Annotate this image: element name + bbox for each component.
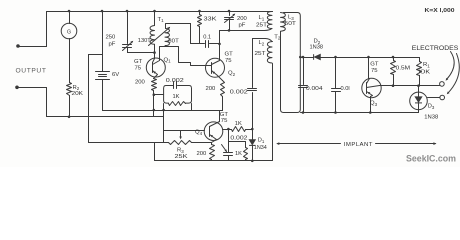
resistor 200 Q2 emitter [221, 81, 225, 97]
svg-text:75: 75 [225, 58, 232, 64]
svg-text:20K: 20K [72, 91, 84, 97]
wire common rail [103, 110, 223, 112]
wire 0.002 bottom [252, 93, 254, 130]
transistor Q1 [146, 58, 165, 77]
transistor Q3 [362, 78, 381, 97]
Q4 collector-top diag [210, 122, 220, 127]
svg-text:33K: 33K [204, 17, 217, 23]
wire D1 bottom [252, 146, 254, 161]
wire R1 bottom lead [419, 76, 421, 86]
svg-text:L1: L1 [259, 15, 265, 21]
capacitor 0.004 [299, 86, 308, 88]
svg-text:IMPLANT: IMPLANT [344, 142, 373, 148]
wire 0.004 top [303, 58, 305, 85]
Q4 base bar [209, 127, 211, 137]
R3 wiper arrowhead [179, 136, 182, 139]
Q3 emitter internal [367, 92, 373, 97]
wire ground rail [155, 160, 273, 162]
Q2 base bar [211, 63, 213, 74]
svg-text:25K: 25K [175, 154, 188, 160]
wire battery top lead [102, 12, 104, 72]
wire 250pF top lead [127, 12, 129, 44]
resistor 33K [198, 15, 202, 27]
svg-text:0.002: 0.002 [166, 78, 184, 84]
wire meter top lead [69, 12, 71, 24]
transistor Q2 [206, 58, 225, 77]
node electrode terminal 2 [440, 95, 445, 100]
svg-text:75: 75 [135, 65, 142, 71]
svg-text:50T: 50T [285, 21, 297, 27]
wire 1K load bottom [245, 160, 247, 161]
capacitor 0.01 [332, 89, 341, 92]
junction top rail / 250pF [126, 10, 129, 13]
capacitor 250pF [123, 45, 132, 48]
wire R3 to Q4 emitter node [192, 142, 212, 144]
svg-text:0.5M: 0.5M [396, 66, 411, 72]
electrode pointer 2 [448, 54, 460, 94]
wire 0.01 top [335, 58, 337, 89]
wire meter to R2 [69, 39, 71, 83]
wire rail stub [221, 110, 223, 112]
wire 30T bottom lead [165, 46, 167, 47]
wire 0.002 top [252, 39, 254, 88]
transistor Q4 [204, 122, 223, 141]
junction 0.01 bottom [334, 111, 337, 114]
wire output cap top [228, 130, 230, 142]
Q2 emitter [212, 71, 223, 81]
battery plates [96, 72, 110, 80]
svg-text:GT: GT [225, 51, 234, 57]
wire battery tap vertical [88, 55, 90, 143]
svg-text:T2: T2 [274, 34, 281, 40]
junction top rail / 33K [198, 10, 201, 13]
output cap arrow [222, 145, 227, 152]
wire 200pF bottom lead [229, 20, 231, 31]
inductor L1 25T [267, 11, 272, 28]
svg-text:200: 200 [206, 86, 217, 92]
svg-text:Q4: Q4 [195, 130, 203, 136]
T1 tuning arrowhead [167, 27, 170, 30]
electrode pointer 1 [447, 52, 455, 80]
wire 130T bottom lead [154, 45, 156, 53]
junction top rail / T1 [153, 10, 156, 13]
wire Q4 collector [223, 129, 232, 131]
junction common rail [153, 109, 156, 112]
box left part [164, 85, 174, 103]
junction top rail / battery [101, 10, 104, 13]
svg-text:1K: 1K [173, 94, 180, 100]
wire to Q1 base [154, 53, 156, 59]
capacitor 250pF arrowhead [130, 41, 133, 44]
junction 0.004 bottom [302, 111, 305, 114]
svg-text:T1: T1 [158, 17, 165, 23]
wire R2 bottom [69, 96, 71, 117]
svg-text:1K: 1K [235, 151, 242, 157]
implant arrow left segment [278, 143, 341, 145]
svg-text:GT: GT [370, 61, 379, 67]
wire T1 130T top lead [154, 12, 156, 26]
wire Q4 base / wiper [164, 130, 205, 132]
capacitor 200pF arrow [225, 15, 235, 23]
resistor 1K load [244, 148, 248, 160]
svg-text:pF: pF [109, 42, 116, 48]
svg-text:1K: 1K [235, 121, 242, 127]
resistor 0.5M [391, 61, 396, 75]
svg-text:pF: pF [239, 23, 246, 29]
wire 0.004 bottom [303, 89, 305, 113]
wire Q2 emitter resistor bottom [222, 97, 224, 111]
wire down to common rail [153, 95, 155, 117]
junction 0.5M / electrode wire [392, 84, 395, 87]
Q1 emitter arrow [153, 71, 156, 74]
svg-text:250: 250 [106, 35, 117, 41]
wire 33K top lead [199, 12, 201, 15]
wire Q4 top lead [219, 111, 221, 122]
wire 0.01 bottom [335, 92, 337, 113]
Q3 top internal [367, 79, 370, 84]
feed wire curve into L1 [265, 28, 272, 30]
wire L2 top lead [253, 38, 266, 40]
junction R1-D3 / electrode wire [417, 84, 420, 87]
wire Q2 collector up [212, 31, 220, 65]
wire 0.1 right [210, 43, 220, 45]
Q1 emitter [153, 71, 158, 79]
svg-text:lOK: lOK [419, 69, 431, 75]
inductor T1 secondary 30T [165, 29, 170, 46]
Q3 collector internal [367, 86, 380, 88]
junction Q3 top [367, 56, 370, 59]
implant arrow left head [276, 142, 279, 145]
resistor R1 10K [417, 62, 422, 76]
wire 0.5M bottom lead [393, 75, 395, 86]
resistor R2 [67, 83, 72, 96]
capacitor 250pF arrow [123, 42, 133, 51]
svg-text:ELECTRODES: ELECTRODES [412, 45, 459, 52]
wire battery tap horizontal [89, 54, 103, 56]
svg-text:200: 200 [197, 151, 208, 157]
svg-text:R1: R1 [423, 62, 430, 68]
capacitor 0.002 feedback [174, 82, 177, 89]
Q2 emitter arrow [212, 72, 215, 74]
svg-text:30T: 30T [168, 39, 179, 45]
junction top rail / meter [68, 10, 71, 13]
implant pickup coil L3 loop [281, 13, 301, 113]
svg-text:75: 75 [221, 118, 228, 124]
svg-text:SeekIC.com: SeekIC.com [406, 154, 456, 164]
Q2 base lead [206, 65, 212, 67]
electrode pointer 2 head [447, 91, 450, 94]
D3 internal top [418, 93, 420, 97]
wire bias to R3 [89, 142, 169, 144]
svg-text:D3: D3 [428, 104, 435, 110]
implant arrow right segment [376, 143, 436, 145]
wire box right drop [191, 104, 193, 111]
svg-text:0.002: 0.002 [230, 89, 248, 95]
wire 250pF bottom lead [127, 48, 129, 53]
R3 wiper lead [180, 131, 182, 137]
svg-text:1N38: 1N38 [310, 45, 324, 51]
wire Q1 emitter resistor bottom [153, 91, 155, 95]
output cap arrowhead [225, 149, 227, 152]
svg-text:L2: L2 [259, 40, 265, 46]
box right part [178, 85, 192, 103]
wire output cap stem [228, 142, 230, 153]
wire upper output vertical [46, 12, 48, 47]
wire 200 to ground rail [211, 160, 213, 161]
wire top rail [47, 11, 273, 13]
Q1 base bar [152, 63, 154, 73]
wire D2 left [301, 57, 314, 59]
svg-text:L3: L3 [288, 14, 294, 20]
wire to feedback box [154, 94, 164, 96]
wire lower output vertical [46, 88, 48, 117]
svg-text:0.1: 0.1 [203, 34, 211, 40]
junction Q3 bottom [369, 111, 372, 114]
wire 250pF to T1 [128, 52, 155, 54]
implant arrow right head [433, 142, 436, 145]
Q4 emitter [210, 135, 217, 143]
Q3 emitter arrow [367, 92, 370, 94]
capacitor 0.002 output [224, 153, 233, 156]
wire L2 bottom return [272, 64, 274, 161]
D3 internal bottom [418, 104, 420, 110]
L3 top closing [284, 12, 286, 14]
wire OUTPUT lower lead [18, 87, 47, 89]
junction 0.5M top [392, 56, 395, 59]
node OUTPUT terminal upper [16, 44, 20, 48]
wire Q4 emitter to 200 [211, 143, 213, 145]
wire Q3 bottom lead [370, 97, 372, 113]
wire 33K bottom lead [199, 27, 201, 44]
inductor T1 primary 130T [150, 26, 154, 45]
junction bias vertical / common rail [162, 109, 165, 112]
junction D1 node [251, 128, 254, 131]
wire implant top rail [321, 57, 420, 59]
resistor 1K feedback [169, 102, 186, 106]
svg-text:Q1: Q1 [164, 57, 172, 63]
svg-text:200: 200 [237, 16, 248, 22]
wire 200pF top lead [229, 12, 231, 16]
node Q1 base junction [153, 51, 156, 54]
wire Q3 to electrode 1 [380, 85, 440, 87]
L2 top curve [266, 39, 272, 42]
svg-text:Q2: Q2 [228, 71, 236, 77]
wire 1K load top [245, 142, 247, 148]
wire oscillator feed [220, 30, 265, 32]
junction top rail / 200pF [228, 10, 231, 13]
diode D2 1N38 [314, 54, 320, 60]
wire D3 to rail [418, 110, 420, 113]
svg-text:1N34: 1N34 [254, 145, 267, 151]
junction L3 / D2 [299, 56, 302, 59]
wire output cap bottom [228, 156, 230, 161]
capacitor 200pF [225, 18, 234, 20]
svg-text:G: G [67, 30, 71, 36]
wire 0.1 left [191, 43, 205, 45]
wire OUTPUT upper lead [19, 46, 47, 48]
Q3 base bar [366, 83, 368, 94]
svg-text:0.0l: 0.0l [341, 86, 350, 92]
wire D3 to electrode 2 [428, 97, 440, 99]
wire Q3 top lead [368, 58, 370, 79]
wire D1 top [252, 130, 254, 140]
diode D3 1N38 envelope [410, 92, 428, 110]
junction Q1 emitter node [153, 93, 156, 96]
svg-text:200: 200 [135, 80, 146, 86]
capacitor 200pF arrowhead [232, 14, 235, 17]
Q4 emitter arrow [210, 135, 213, 137]
wire battery bottom lead [102, 80, 104, 111]
resistor 1K collector [232, 127, 246, 132]
capacitor 0.1 [206, 41, 209, 48]
wire R1 top lead [419, 58, 421, 62]
wire 1K to node [246, 129, 253, 131]
inductor L3 50T [281, 13, 286, 32]
wire 0.5M top lead [393, 58, 395, 61]
svg-text:0.002: 0.002 [230, 135, 247, 141]
svg-text:0.004: 0.004 [306, 86, 323, 92]
wire to 1K load [229, 141, 246, 143]
svg-text:6V: 6V [112, 72, 119, 78]
svg-text:1N38: 1N38 [424, 115, 438, 121]
svg-text:Q3: Q3 [370, 101, 378, 107]
junction feed / 200pF [228, 29, 231, 32]
node electrode terminal 1 [440, 82, 445, 87]
wire ground drop left [154, 143, 156, 161]
wire 30T top lead [166, 24, 191, 29]
svg-text:25T: 25T [256, 23, 268, 29]
capacitor 0.002 coupling [248, 89, 257, 91]
svg-text:D1: D1 [258, 138, 265, 144]
wire lower-left rail [47, 116, 164, 118]
node OUTPUT terminal lower [15, 86, 19, 90]
junction 0.01 top [334, 56, 337, 59]
junction R2/rail [68, 116, 71, 119]
svg-text:130T: 130T [138, 38, 152, 44]
junction D1 ground [251, 160, 254, 163]
resistor 200 Q4 emitter [210, 145, 215, 160]
resistor R3 25K [169, 141, 192, 145]
T1 tuning arrow [149, 28, 170, 46]
junction 0.002 output branch [227, 128, 230, 131]
svg-text:25T: 25T [255, 51, 267, 57]
inductor L2 25T [267, 42, 272, 64]
wire D3 top lead [418, 86, 420, 93]
wire 30T to 0.1 [190, 24, 192, 44]
Q1 base lead [153, 59, 155, 63]
junction Q2 collector / 0.1 [218, 43, 221, 46]
svg-text:GT: GT [134, 59, 143, 65]
electrode pointer 1 head [446, 78, 449, 81]
svg-text:K=X l,000: K=X l,000 [425, 8, 455, 14]
junction 0.004 top [302, 56, 305, 59]
wire Q1 collector to Q2 base [153, 47, 206, 66]
resistor 200 Q1 emitter [152, 79, 157, 91]
diode D3 arrow [415, 97, 422, 103]
wire box-left / bias vertical [163, 104, 165, 143]
diode D1 1N34 [249, 140, 255, 145]
wire implant bottom rail [301, 112, 419, 114]
svg-text:OUTPUT: OUTPUT [16, 68, 47, 75]
meter G [61, 23, 77, 39]
svg-text:75: 75 [371, 68, 378, 74]
